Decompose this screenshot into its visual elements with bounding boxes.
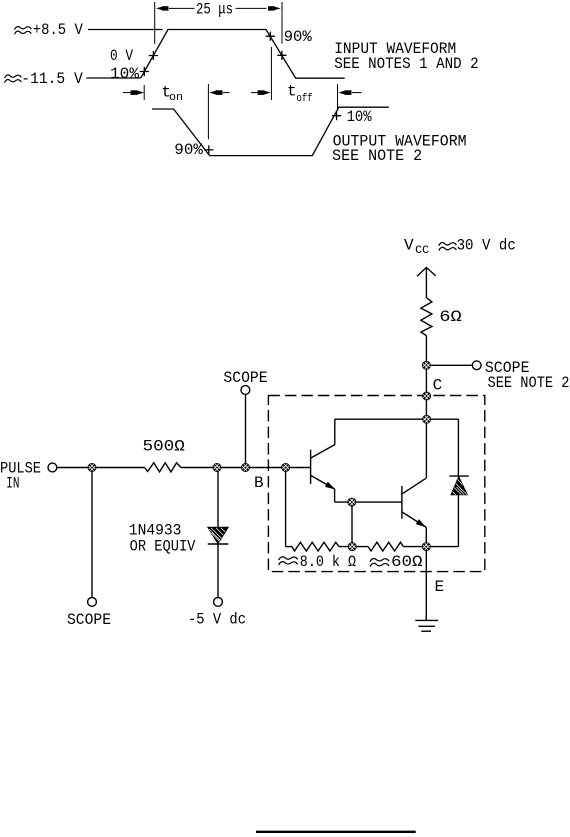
svg-text:8.0 k Ω: 8.0 k Ω: [300, 553, 357, 571]
svg-text:SEE NOTE 2: SEE NOTE 2: [332, 147, 422, 165]
svg-text:60Ω: 60Ω: [391, 553, 423, 571]
svg-text:SCOPE: SCOPE: [223, 369, 267, 387]
svg-text:0 V: 0 V: [110, 47, 133, 65]
svg-text:C: C: [433, 376, 443, 394]
svg-text:CC: CC: [415, 245, 429, 257]
svg-text:-11.5 V: -11.5 V: [21, 70, 83, 88]
svg-text:+8.5 V: +8.5 V: [33, 21, 83, 39]
svg-text:90%: 90%: [284, 28, 312, 46]
svg-text:E: E: [435, 578, 445, 596]
svg-text:SEE NOTE 2: SEE NOTE 2: [488, 374, 570, 392]
svg-text:B: B: [254, 474, 264, 492]
svg-text:on: on: [169, 92, 183, 104]
svg-text:-5 V dc: -5 V dc: [188, 611, 246, 629]
svg-text:10%: 10%: [110, 65, 139, 83]
svg-text:SCOPE: SCOPE: [67, 611, 111, 629]
svg-text:500Ω: 500Ω: [143, 437, 186, 455]
svg-text:V: V: [404, 237, 414, 255]
svg-text:30 V dc: 30 V dc: [457, 237, 516, 255]
svg-text:OR EQUIV: OR EQUIV: [130, 537, 196, 555]
svg-text:SEE NOTES 1 AND 2: SEE NOTES 1 AND 2: [334, 55, 479, 73]
svg-text:90%: 90%: [174, 141, 203, 159]
svg-text:25 μs: 25 μs: [196, 1, 233, 19]
svg-text:6Ω: 6Ω: [439, 308, 462, 326]
svg-text:off: off: [297, 93, 313, 105]
svg-text:10%: 10%: [347, 108, 372, 126]
svg-text:t: t: [287, 83, 297, 101]
svg-text:IN: IN: [6, 475, 19, 493]
